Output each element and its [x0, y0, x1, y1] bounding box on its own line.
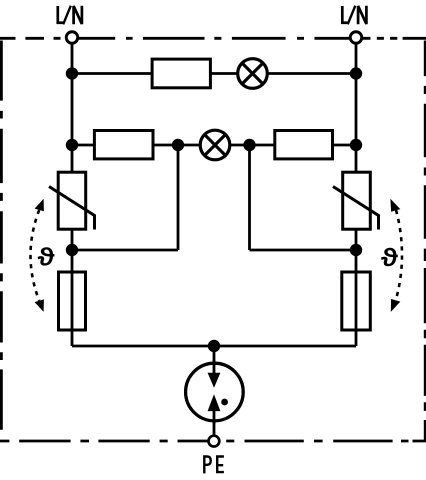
spark gap (triggered) — [186, 360, 244, 424]
wire center to spark gap — [213, 346, 216, 362]
terminal L/N right — [350, 32, 362, 44]
node dot left second row — [66, 139, 78, 151]
wire link left y250 — [72, 249, 178, 252]
varistor right — [333, 172, 379, 229]
enclosure border bottom (dash-dot) — [0, 440, 426, 443]
enclosure border top (dash-dot) — [0, 37, 426, 40]
node dot right second row — [350, 139, 362, 151]
resistor left (second row) — [94, 131, 153, 159]
wire drop left of middle lamp — [177, 145, 180, 250]
fuse left (thermal disconnector) — [59, 270, 86, 332]
node dot left y250 — [66, 244, 78, 256]
theta label left — [38, 248, 54, 266]
fuse right (thermal disconnector) — [342, 270, 371, 332]
node dot right y250 — [350, 244, 362, 256]
wire bottom bus — [72, 345, 356, 348]
theta label right — [382, 248, 398, 266]
node dot bottom bus center — [208, 340, 220, 352]
wire top row L/N to L/N — [72, 72, 356, 75]
node dot right top row — [350, 67, 362, 79]
resistor right (second row) — [275, 131, 333, 159]
wire right column — [355, 43, 358, 346]
varistor left — [49, 172, 95, 229]
node dot right of middle lamp — [243, 139, 255, 151]
resistor top — [152, 59, 210, 88]
wire spark gap to PE — [213, 421, 216, 437]
node dot left top row — [66, 67, 78, 79]
terminal L/N left — [66, 32, 78, 44]
indicator lamp top — [238, 59, 268, 89]
wire left column — [71, 43, 74, 346]
label PE — [203, 455, 224, 473]
wire second row — [72, 144, 356, 147]
node dot left of middle lamp — [172, 139, 184, 151]
indicator lamp middle — [200, 130, 230, 160]
thermal coupling arc left — [31, 199, 44, 312]
terminal PE — [209, 436, 220, 447]
wire link right y250 — [250, 249, 357, 252]
wire drop right of middle lamp — [248, 145, 251, 250]
label L/N left — [56, 6, 81, 25]
label L/N right — [341, 6, 366, 25]
thermal coupling arc right — [390, 199, 402, 312]
enclosure border right (dash-dot) — [424, 41, 426, 442]
enclosure border left (dash-dot) — [0, 41, 3, 430]
